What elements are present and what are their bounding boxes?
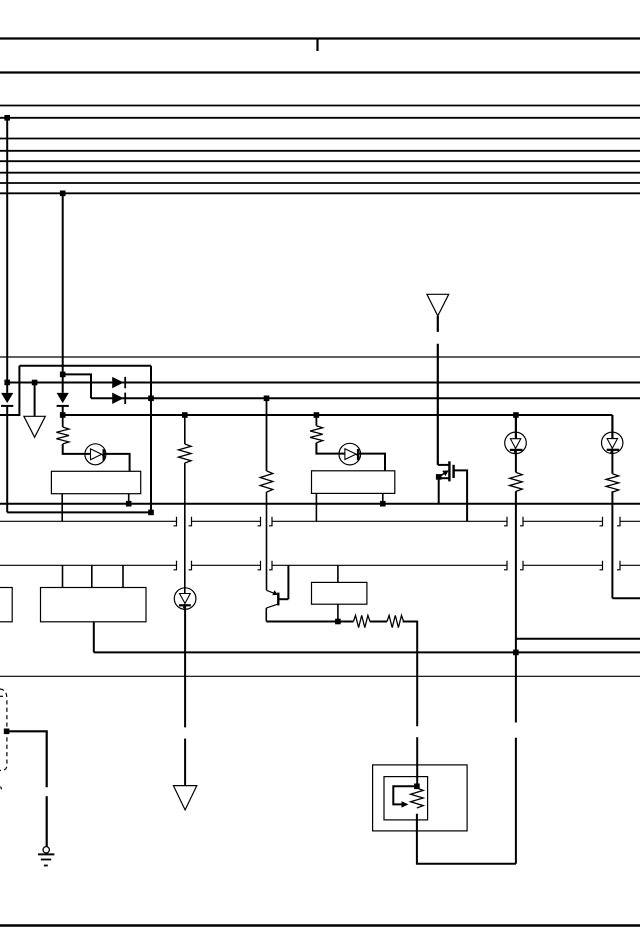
box sender inner [384, 777, 428, 820]
transistor Q1 drain lead [438, 464, 450, 466]
wire bus line 8 [0, 192, 640, 194]
wire horizontal net C [63, 414, 613, 416]
ground circle [43, 847, 49, 853]
ground bar 3 [44, 865, 48, 867]
connector tick [258, 561, 261, 570]
diode D1 cathode bar [1, 405, 13, 407]
wire connector line 2 segment e [620, 564, 640, 566]
wire bus line 1 [0, 105, 640, 107]
resistor R7 [353, 615, 370, 627]
connector tick [258, 517, 261, 526]
node junction D2 to net C [60, 412, 66, 418]
lamp B bar [357, 449, 359, 460]
wire lamp C to R5 [515, 450, 517, 473]
wire U1 pin to ground rail [128, 494, 130, 504]
connector tick [189, 561, 192, 570]
lamp B circle [339, 443, 361, 465]
wire jog right [63, 374, 91, 398]
lamp D bar [607, 449, 620, 451]
wire bus line 4 [0, 150, 640, 152]
wire sender feed after break [416, 737, 418, 786]
node junction sender wiper [414, 784, 420, 790]
resistor R6 [606, 474, 619, 492]
lamp D triangle [607, 439, 617, 449]
wire D1 cathode down [6, 406, 8, 513]
transistor Q1 body arrow [442, 470, 449, 476]
resistor R4 lead [266, 398, 268, 471]
node junction on bus line 2 [4, 115, 10, 121]
wire horizontal net A [7, 382, 640, 384]
connector tick [617, 517, 620, 526]
wire horizontal net B [91, 397, 640, 399]
dashed boundary stub left [0, 695, 3, 697]
lamp C triangle [510, 439, 520, 449]
node junction net C tap lamp C [513, 412, 519, 418]
wire connector line 1 segment d [523, 520, 603, 522]
wire between R7 R8 [370, 621, 387, 623]
resistor R9 sender element [411, 786, 424, 808]
connector tick [269, 517, 272, 526]
transistor Q2 lower lead [266, 604, 278, 608]
node junction tap for arrow [32, 380, 38, 386]
wire connector line 2 segment c [272, 564, 507, 566]
wire lamp A to box U1 [104, 454, 130, 471]
connector tick [504, 561, 507, 570]
wire Q1 source to ground rail [438, 478, 440, 504]
dashed boundary bottom left [0, 689, 7, 770]
wire connector line 1 segment e [620, 520, 640, 522]
connector tick [617, 561, 620, 570]
wire U4 output to net [337, 604, 339, 621]
wire drop to open arrow [34, 383, 36, 417]
resistor R2 [179, 444, 192, 463]
diode D2 [57, 393, 69, 403]
wire U3 output down [93, 622, 95, 653]
wire Q2 collector up to connector line [287, 565, 289, 599]
ground bar 2 [41, 859, 51, 861]
resistor R1 bottom lead [63, 444, 91, 454]
wire connector line 2 segment d [523, 564, 603, 566]
resistor R3 bottom lead [316, 443, 345, 454]
node junction net B at module edge [148, 396, 154, 402]
node junction at jog [60, 372, 66, 378]
wire lamp D to R6 [611, 450, 613, 474]
connector tick [504, 517, 507, 526]
wire module left edge [0, 366, 19, 415]
wire top border line [0, 37, 640, 39]
wire U1 pin to connector line [61, 494, 63, 522]
wire lower horizontal to module edge [7, 511, 151, 513]
wire connector line 1 segment c [272, 520, 507, 522]
wire U3 pin 2 [91, 565, 93, 587]
box U4 [312, 582, 367, 604]
box sender outer [373, 765, 468, 831]
wire sender bottom [417, 814, 516, 864]
node junction U2 to ground rail [380, 501, 386, 507]
transistor Q2 emitter arrow [272, 590, 278, 595]
resistor R5 [510, 472, 523, 491]
connector tick [600, 561, 603, 570]
node junction box U4 to output [335, 619, 341, 625]
wire lamp E down [184, 605, 186, 727]
wire module right edge [150, 366, 152, 513]
arrow open triangle antenna [427, 294, 449, 316]
wire D2 cathode down [62, 406, 64, 415]
wire vertical drop from bus line 2 [6, 118, 8, 393]
node junction net C tap R2 [182, 412, 188, 418]
lamp A triangle [91, 449, 102, 460]
lamp A bar [102, 449, 104, 460]
arrow open triangle down [24, 416, 45, 437]
transistor Q1 channel bar [448, 461, 450, 481]
connector tick [269, 561, 272, 570]
wire antenna down [437, 316, 439, 332]
wire bus line 2 [0, 117, 640, 119]
transistor Q1 gate bar [452, 465, 454, 478]
transistor Q2 emitter [266, 590, 274, 593]
wire output net with resistors [266, 621, 353, 623]
wire battery tap to ground drop [7, 731, 47, 787]
wire connector line 2 segment b [192, 564, 261, 566]
connector tick [174, 561, 177, 570]
lamp B triangle [345, 449, 356, 460]
wire lamp D feed corner [611, 415, 613, 439]
wire bus line 7 [0, 182, 640, 184]
wire lamp C feed [515, 415, 517, 439]
connector tick [520, 561, 523, 570]
diode D2 cathode bar [57, 405, 69, 407]
wire to right edge [612, 597, 640, 599]
diode D3 cathode bar [124, 377, 126, 388]
resistor R8 [387, 615, 404, 627]
resistor R1 [56, 427, 69, 444]
wire R4 to transistor Q2 [266, 492, 268, 590]
lamp C circle [505, 432, 527, 454]
transistor Q1 body line [440, 473, 446, 477]
node junction net C tap R3 [314, 412, 320, 418]
wire thin lower rail full width [0, 675, 640, 677]
wire R5 down to lower rail [515, 491, 517, 652]
wire connector line 1 segment a [0, 520, 177, 522]
wire second border line [0, 71, 640, 73]
resistor R2 lead [184, 415, 186, 444]
diode D4 cathode bar [124, 393, 126, 404]
node junction net B tap [264, 396, 270, 402]
wire module top edge [19, 365, 151, 367]
wire thin rail [0, 356, 640, 358]
lamp C bar [510, 449, 523, 451]
transistor Q2 base bar [277, 593, 279, 606]
wire bus line 3 [0, 138, 640, 140]
wire R8 to corner [403, 622, 418, 727]
diode D1 [1, 393, 13, 403]
lamp E triangle [180, 594, 191, 604]
lamp A circle [85, 444, 106, 465]
wire bus line 5 [0, 160, 640, 162]
diode D4 [112, 393, 123, 404]
node tick on top border [316, 39, 318, 52]
connector tick [600, 517, 603, 526]
node junction U1 to ground rail [126, 501, 132, 507]
lamp D circle [602, 432, 623, 453]
connector tick [520, 517, 523, 526]
wire below lower rail [515, 652, 517, 722]
dashed boundary stub [1, 787, 3, 792]
wire lower rail [94, 651, 640, 653]
wire lamp B to box U2 [358, 454, 385, 471]
box U1 [51, 471, 140, 493]
resistor R3 lead [315, 415, 317, 426]
wire Q2 to output [265, 608, 267, 622]
wire U3 pin 1 [62, 565, 64, 587]
wire U2 pin to connector line [315, 493, 317, 521]
resistor R3 [310, 426, 323, 443]
connector tick [174, 517, 177, 526]
node junction on bus line 8 [60, 191, 66, 197]
wire connector line 1 segment b [192, 520, 261, 522]
node junction lower rail [513, 650, 519, 656]
wire connector line 2 segment a [0, 564, 177, 566]
wire ground drop after break [46, 796, 48, 846]
transistor Q1 gate lead [454, 470, 468, 521]
box U3 left partial [0, 588, 12, 622]
wire bus line 6 [0, 172, 640, 174]
lamp E bar [179, 604, 191, 606]
resistor R1 lead [62, 415, 64, 427]
arrow open triangle bottom [173, 786, 196, 810]
node junction at module corner [148, 510, 154, 516]
wire bottom border line [0, 924, 640, 927]
wire U4 feed from connector line [337, 565, 339, 582]
wire branch to right edge [516, 638, 640, 640]
wire U3 pin 3 [122, 565, 124, 587]
node junction Q1 source [436, 474, 442, 480]
wire R2 to lamp E [184, 463, 186, 594]
node junction battery tap [4, 729, 10, 735]
wire vertical drop from bus line 8 [62, 193, 64, 393]
sender wiper arm [393, 786, 417, 804]
wire ground rail full width [0, 503, 640, 505]
wire R6 down [611, 491, 613, 598]
wire lamp E down after break [184, 739, 186, 786]
wire antenna down after break [437, 344, 439, 465]
wire sender return after break [515, 738, 517, 864]
transistor Q2 collector lead [278, 598, 288, 600]
node junction at diode D1 anode [4, 380, 10, 386]
ground bar 1 [38, 853, 54, 855]
wire U2 pin to ground rail [382, 493, 384, 503]
transistor Q1 source lead [439, 477, 450, 479]
lamp E circle [174, 588, 196, 610]
diode D3 [112, 377, 123, 388]
sender wiper arrow [402, 801, 409, 807]
resistor R4 [260, 471, 273, 492]
box U2 [312, 471, 395, 494]
connector tick [189, 517, 192, 526]
box U3 [41, 588, 147, 622]
